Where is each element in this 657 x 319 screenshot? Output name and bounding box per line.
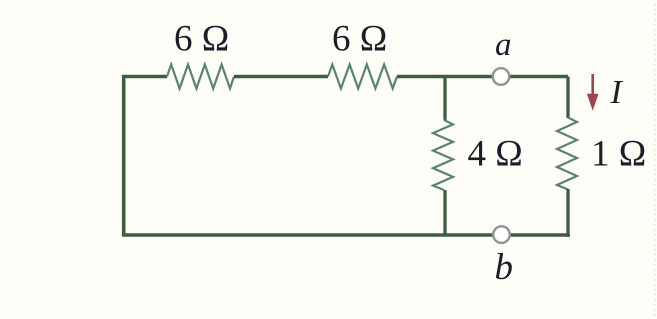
wire right branch bottom <box>566 189 569 237</box>
svg-text:I: I <box>610 74 624 111</box>
svg-text:1 Ω: 1 Ω <box>591 134 646 175</box>
resistor 6ohm left <box>167 65 234 89</box>
svg-text:6 Ω: 6 Ω <box>174 19 229 60</box>
terminal a circle <box>493 68 510 85</box>
svg-text:b: b <box>495 247 514 288</box>
svg-text:6 Ω: 6 Ω <box>332 19 387 60</box>
page edge dotted line <box>654 4 656 316</box>
resistor 1ohm <box>557 118 577 190</box>
wire top-right segment <box>397 75 568 79</box>
wire right branch top <box>566 77 569 119</box>
resistor 4ohm <box>433 120 453 190</box>
wire middle branch bottom <box>443 190 446 235</box>
svg-text:a: a <box>495 27 512 63</box>
current arrow I <box>587 74 599 111</box>
wire bottom <box>122 233 570 237</box>
wire middle branch top <box>443 77 446 121</box>
terminal b circle <box>493 226 510 243</box>
svg-text:4 Ω: 4 Ω <box>468 134 523 175</box>
resistor 6ohm right <box>328 65 397 89</box>
wire top-middle segment <box>234 75 328 79</box>
wire top-left segment <box>124 77 167 236</box>
